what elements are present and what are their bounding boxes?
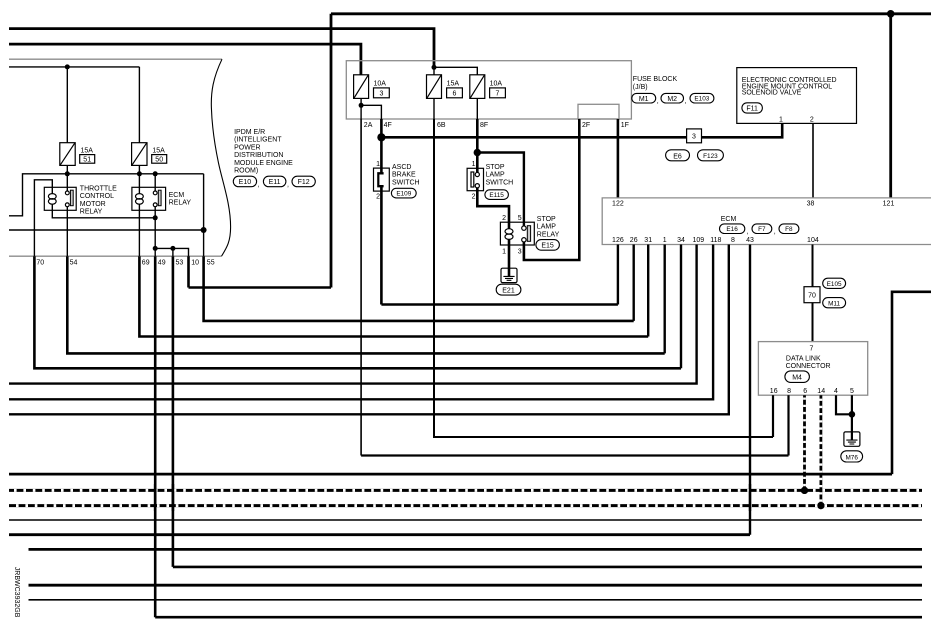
svg-text:2A: 2A	[364, 122, 373, 129]
wire: 4F drop to junction	[380, 119, 383, 137]
wire: DLC pin 14 shielded drop to bus 3	[820, 395, 823, 505]
wire: ECM relay coil bottom to pin 69	[138, 204, 140, 256]
svg-text:E11: E11	[269, 179, 281, 186]
connector oval F12	[292, 176, 315, 187]
wire: ECM pin 34 drop	[680, 245, 682, 369]
wire: 8F drop to junction	[476, 119, 479, 153]
svg-text:F8: F8	[785, 226, 793, 233]
svg-text:(J/B): (J/B)	[633, 84, 648, 91]
svg-text:121: 121	[883, 201, 895, 208]
connector oval F7	[752, 224, 776, 236]
wire: IPDM pin 55 to ECM pin 26	[204, 256, 634, 321]
label: ECM bottom pin numbers	[612, 237, 819, 244]
connector oval E6	[666, 150, 690, 161]
svg-text:5: 5	[518, 215, 522, 222]
connector oval M4	[785, 371, 810, 383]
svg-text:5: 5	[850, 388, 854, 395]
node: junction above fuses 6 and 7	[432, 65, 437, 70]
svg-text:49: 49	[158, 260, 166, 267]
FUSE BLOCK (J/B) box outline	[346, 61, 631, 119]
wire: bottom bus 6	[29, 548, 923, 551]
label: DATA LINK CONNECTOR	[786, 355, 831, 370]
wire: IPDM pin 54 to ECM pin 1	[67, 256, 664, 353]
wire: branch 8F to stop lamp relay pin 5	[477, 153, 524, 226]
wire: feed line y=44.1 to fuse 3	[9, 44, 361, 75]
svg-text:15A: 15A	[152, 147, 165, 154]
ground: E21 body ground	[501, 268, 517, 282]
svg-text:MOTOR: MOTOR	[80, 201, 106, 208]
wire: ECM relay contact bottom down pin 49 riser	[154, 207, 156, 257]
svg-text:10A: 10A	[490, 80, 503, 87]
connector oval M1	[632, 93, 659, 105]
connector oval F8	[779, 224, 799, 234]
svg-text:7: 7	[810, 346, 814, 353]
wire: drop to ECM pin 121	[889, 14, 892, 198]
svg-text:ECM: ECM	[721, 216, 737, 223]
IPDM E/R box outline (cut left, top and bottom edges)	[9, 59, 222, 256]
node: fuse 51 output junction	[65, 171, 70, 176]
wire: stop lamp switch pin 2 to relay pin 2	[477, 188, 509, 222]
relay: STOP LAMP RELAY	[500, 222, 534, 245]
svg-text:ASCD: ASCD	[392, 164, 411, 171]
svg-text:E10: E10	[239, 179, 252, 186]
svg-text:RELAY: RELAY	[537, 232, 560, 239]
svg-text:F12: F12	[298, 179, 310, 186]
svg-text:,: ,	[657, 98, 659, 105]
wire: DLC pin 5 to ground M76	[851, 395, 853, 432]
node: junction on DLC pin 5 wire	[849, 411, 856, 418]
svg-text:M4: M4	[792, 375, 802, 382]
wire: fuse 3 output to junction	[360, 98, 362, 105]
svg-text:55: 55	[207, 260, 215, 267]
svg-text:E21: E21	[502, 288, 515, 295]
wire: solenoid valve pin 2 to ECM pin 38	[812, 123, 814, 197]
svg-text:26: 26	[630, 237, 638, 244]
svg-text:43: 43	[746, 237, 754, 244]
wire: battery feed top line to ECM 121	[331, 12, 931, 15]
svg-text:FUSE BLOCK: FUSE BLOCK	[633, 76, 678, 83]
node: junction pin49/pin53 link	[153, 246, 158, 251]
connector oval E105	[823, 278, 846, 288]
node: junction to ECM relay coil	[137, 171, 142, 176]
svg-text:2: 2	[472, 194, 476, 201]
svg-text:STOP: STOP	[537, 216, 556, 223]
svg-text:118: 118	[710, 237, 721, 244]
relay: ECM RELAY	[132, 187, 166, 210]
svg-text:109: 109	[692, 237, 704, 244]
svg-text:8F: 8F	[480, 122, 488, 129]
svg-text:RELAY: RELAY	[169, 200, 192, 207]
wire: IPDM pin 49 down to bottom bus 10	[154, 256, 157, 617]
label: STOP LAMP RELAY pins 2/5/1/3	[502, 215, 522, 255]
wire: ECM pin 43 down to bottom bus 5	[749, 245, 751, 535]
connector oval F11	[742, 103, 763, 113]
connector oval E103	[690, 93, 714, 103]
svg-text:,: ,	[685, 98, 687, 105]
wire: 2A to DATA LINK CONNECTOR pin 8	[360, 119, 362, 456]
wire: ECM pin 104 to connector 70	[812, 245, 814, 287]
wire: ECM pin 109 to page edge	[9, 245, 697, 384]
connector oval E21	[496, 284, 521, 295]
svg-text:SWITCH: SWITCH	[392, 180, 420, 187]
wire: 8F down to stop lamp switch pin 1	[476, 153, 479, 169]
connector oval E11	[263, 176, 289, 188]
wire: bottom bus 5 (to ECM pin 43)	[9, 533, 750, 536]
wire: bottom bus 4	[9, 519, 922, 521]
wire: throttle relay contact top feed	[66, 174, 68, 191]
wire: bottom bus 7 (from IPDM pin 53)	[173, 566, 922, 569]
connector oval M11	[823, 298, 846, 308]
svg-text:1: 1	[376, 161, 380, 168]
wire: bottom bus 3 (shielded dashed)	[9, 504, 922, 507]
fuse 3 (10A)	[354, 75, 390, 99]
wire: DLC pin 4 to pin 5 ground link	[836, 395, 852, 414]
svg-text:2F: 2F	[582, 122, 590, 129]
svg-text:104: 104	[807, 237, 819, 244]
label: STOP LAMP SWITCH pins 1/2	[472, 161, 476, 200]
node: junction DLC 6 on bus 2	[801, 487, 808, 494]
svg-text:6B: 6B	[437, 122, 446, 129]
node: 8F junction	[474, 149, 481, 156]
svg-text:31: 31	[644, 237, 652, 244]
fuse 51 (15A)	[60, 143, 95, 166]
svg-text:,: ,	[747, 228, 749, 235]
connector oval M76	[841, 451, 863, 462]
svg-text:4: 4	[834, 388, 838, 395]
connector oval E16	[720, 224, 749, 236]
wire: fuse 6 output to 6B	[433, 98, 435, 119]
svg-text:15A: 15A	[447, 80, 460, 87]
svg-text:E115: E115	[489, 192, 504, 199]
svg-text:E103: E103	[694, 96, 709, 103]
svg-text:8: 8	[731, 237, 735, 244]
label: STOP LAMP SWITCH	[486, 164, 514, 187]
fuse 6 (15A)	[427, 75, 463, 99]
node: junction on top line above ECM pin 121	[887, 10, 895, 18]
svg-text:10A: 10A	[374, 80, 387, 87]
wire: IPDM pin 69 to ECM pin 31	[139, 256, 648, 336]
node: junction DLC 6 on bus 2 (redrawn above dashes)	[801, 487, 808, 494]
svg-text:ECM: ECM	[169, 192, 185, 199]
connector oval E10	[233, 176, 259, 188]
switch: STOP LAMP SWITCH	[467, 168, 483, 190]
wire: right edge feed to bottom bus 1	[892, 292, 931, 474]
IPDM E/R wavy cut edge	[211, 59, 230, 256]
label: STOP LAMP RELAY	[537, 216, 560, 239]
svg-text:16: 16	[770, 388, 778, 395]
svg-text:2: 2	[376, 194, 380, 201]
wire: link y=248.4 to pin 10 drop	[155, 248, 188, 256]
wire: ECM pin 26 drop	[633, 245, 635, 321]
wire: feed line y=28.6 to fuse block fuses 6/7	[9, 29, 434, 68]
wire: ECM pin 118 to page edge	[9, 245, 713, 400]
wire: ECM pin 1 drop	[664, 245, 666, 354]
wire: bottom bus 2 (shielded dashed)	[9, 489, 922, 492]
svg-text:7: 7	[496, 91, 500, 98]
wire: drop to fuse 50 top	[138, 67, 140, 143]
node: junction on pin 53 drop	[170, 246, 175, 251]
fuse 7 (10A)	[470, 75, 506, 99]
svg-text:4F: 4F	[384, 122, 392, 129]
node: junction on pin 49 riser	[153, 215, 158, 220]
wire: IPDM pin 10 up riser start	[187, 256, 190, 287]
svg-text:JRBWC3932GB: JRBWC3932GB	[13, 567, 20, 618]
svg-text:1: 1	[663, 237, 667, 244]
wire: branch to 4F inside fuse block	[361, 105, 381, 119]
FUSE BLOCK pin labels 2A 4F 6B 8F 2F 1F	[364, 122, 629, 129]
wire: IPDM pin 49 riser over dashed buses	[154, 484, 157, 511]
svg-text:LAMP: LAMP	[537, 224, 556, 231]
svg-text:10: 10	[191, 260, 199, 267]
label: ASCD BRAKE SWITCH pins 1/2	[376, 161, 380, 200]
svg-text:38: 38	[807, 201, 815, 208]
wire: 2A drop inside fuse block	[360, 105, 362, 119]
svg-text:,: ,	[258, 182, 260, 189]
svg-text:RELAY: RELAY	[80, 209, 103, 216]
svg-text:DATA LINK: DATA LINK	[786, 355, 821, 362]
wire: branch from junction to fuse 7 top	[434, 67, 477, 75]
svg-text:126: 126	[612, 237, 624, 244]
svg-text:2: 2	[810, 116, 814, 123]
DATA LINK CONNECTOR box	[758, 342, 867, 396]
wire: IPDM net y=173.8 with left tail to page edge	[9, 174, 204, 216]
wire: bottom bus 1	[9, 473, 892, 476]
wire: ECM relay coil top	[138, 174, 140, 194]
node: junction DLC 14 on bus 3 (redrawn above dashes)	[817, 502, 824, 509]
node: fuse 3 output junction (2A/4F)	[359, 103, 364, 108]
svg-text:M2: M2	[667, 96, 677, 103]
svg-text:IPDM E/R: IPDM E/R	[234, 129, 265, 136]
svg-text:E105: E105	[827, 281, 842, 288]
wire: fuse 51 output to node	[66, 165, 68, 173]
svg-text:1: 1	[472, 161, 476, 168]
wire: ECM pin 126 drop	[617, 245, 619, 305]
connector oval F123	[698, 150, 724, 161]
wire: DLC pin 8 drop to 2A line	[787, 395, 789, 455]
wire: stop lamp relay pin 3 to fuse block 2F	[524, 119, 579, 260]
ground: M76 body ground	[844, 432, 860, 446]
svg-text:F7: F7	[758, 226, 766, 233]
FUSE BLOCK bottom connector sub-box (2F/1F)	[578, 104, 619, 119]
label: solenoid valve text	[742, 77, 837, 96]
svg-text:,: ,	[287, 182, 289, 189]
wire: bottom bus 8	[29, 584, 923, 587]
connector 70 (E105/M11 pass-through)	[804, 287, 820, 303]
svg-text:50: 50	[155, 157, 163, 164]
wire: IPDM pin 70 to ECM pin 34	[34, 256, 681, 368]
svg-text:8: 8	[787, 388, 791, 395]
wire: throttle relay coil top to pin 70 riser	[34, 180, 52, 256]
connector oval E115	[485, 190, 509, 200]
wire: ECM pin 8 to page edge	[9, 245, 729, 415]
svg-text:M76: M76	[845, 454, 858, 461]
wire: stub from junction into fuse 6 top	[433, 67, 435, 75]
solenoid: ELECTRONIC CONTROLLED ENGINE MOUNT CONTROL SOLENOID VALVE box	[737, 68, 857, 124]
wire: ECM pin 43 riser over dashed buses	[749, 484, 751, 511]
svg-text:ROOM): ROOM)	[234, 168, 258, 175]
svg-text:M11: M11	[828, 300, 840, 307]
node: junction above fuse 51	[65, 64, 70, 69]
node: junction to ECM relay contact	[153, 171, 158, 176]
wire: ECM relay contact top	[154, 174, 156, 191]
svg-text:SWITCH: SWITCH	[486, 180, 514, 187]
svg-text:E15: E15	[541, 243, 554, 250]
wire: net y=230 from page edge to pin 55 riser	[9, 229, 204, 231]
IPDM pin number labels 70 54 69 49 53 10 55	[36, 260, 214, 267]
wire: ECM pin 31 drop	[647, 245, 649, 337]
wire: IPDM pin 53 down to bottom bus 7	[172, 256, 175, 567]
svg-text:STOP: STOP	[486, 164, 505, 171]
svg-text:70: 70	[808, 292, 816, 299]
svg-text:LAMP: LAMP	[486, 172, 505, 179]
wire: horizontal 2A to DLC pin 8	[361, 454, 788, 456]
svg-text:1: 1	[502, 249, 506, 256]
svg-text:14: 14	[817, 388, 825, 395]
wire: throttle relay coil bottom to ECM relay contact branch	[52, 210, 155, 218]
connector 3 (E6/F123 pass-through)	[687, 129, 702, 143]
wire: DLC pin 16 drop to 6B line	[772, 395, 774, 437]
wire: IPDM internal feed y=66.9 to fuses 51/50	[9, 66, 139, 68]
svg-text:CONNECTOR: CONNECTOR	[786, 363, 831, 370]
relay: THROTTLE CONTROL MOTOR RELAY	[44, 187, 76, 210]
svg-text:1F: 1F	[621, 122, 629, 129]
wire: horizontal to ECM pin 126	[381, 303, 618, 305]
wire: stop lamp relay pin 1 to ground E21	[508, 245, 511, 268]
svg-text:,: ,	[774, 228, 776, 235]
wire: 4F to engine mount solenoid valve pin 1 via connector 3	[381, 123, 782, 137]
label: FUSE BLOCK (J/B)	[633, 76, 678, 91]
svg-text:POWER: POWER	[234, 144, 260, 151]
svg-text:1: 1	[779, 116, 783, 123]
svg-text:122: 122	[612, 201, 624, 208]
svg-text:6: 6	[453, 91, 457, 98]
svg-text:3: 3	[518, 249, 522, 256]
label: IPDM E/R description	[234, 129, 293, 175]
svg-text:3: 3	[379, 91, 383, 98]
svg-text:F11: F11	[746, 106, 758, 113]
wire: 6B to DLC pin 16	[434, 119, 773, 437]
wire: ASCD switch pin 2 to ECM pin 126	[380, 191, 383, 304]
connector oval M2	[661, 93, 687, 105]
svg-text:70: 70	[36, 260, 44, 267]
wire: 1F to ECM pin 122	[617, 119, 620, 198]
svg-text:SOLENOID VALVE: SOLENOID VALVE	[742, 90, 802, 97]
svg-text:3: 3	[692, 133, 696, 140]
connector oval E109	[391, 188, 416, 198]
label: ECM top pin numbers 122 38 121	[612, 201, 894, 208]
wire: pin 55 riser from y=173.8 net	[203, 174, 205, 256]
svg-text:15A: 15A	[81, 147, 94, 154]
svg-text:2: 2	[502, 215, 506, 222]
wire: 4F down to ASCD brake switch pin 1	[380, 137, 383, 168]
wire: bottom bus 10 (from IPDM pin 49)	[155, 616, 922, 619]
ECM box outline (open right edge)	[602, 198, 931, 245]
svg-text:E6: E6	[673, 153, 682, 160]
node: junction on pin 55 riser	[201, 227, 207, 233]
label: DLC bottom pin numbers 16 8 6 14 4 5	[770, 388, 854, 395]
wire: fuse 7 output to 8F	[476, 98, 478, 119]
svg-text:THROTTLE: THROTTLE	[80, 185, 117, 192]
wire: IPDM pin 10 jog up to top line	[189, 286, 332, 289]
svg-text:CONTROL: CONTROL	[80, 193, 114, 200]
node: junction DLC 14 on bus 3	[817, 502, 824, 509]
fuse 50 (15A)	[132, 143, 167, 166]
label: THROTTLE CONTROL MOTOR RELAY	[80, 185, 117, 215]
wire: vertical riser x=331 from IPDM pin 10 net	[330, 14, 333, 288]
wire: fuse 50 output to node	[138, 165, 140, 173]
svg-text:E109: E109	[396, 191, 411, 198]
svg-text:6: 6	[803, 388, 807, 395]
svg-text:DISTRIBUTION: DISTRIBUTION	[234, 152, 283, 159]
label: ECM RELAY	[169, 192, 192, 207]
label: ASCD BRAKE SWITCH	[392, 164, 420, 187]
wire: IPDM pin 53 riser over dashed buses	[172, 484, 175, 511]
wire: DLC pin 6 shielded drop to bus 2	[803, 395, 806, 490]
svg-text:MODULE ENGINE: MODULE ENGINE	[234, 160, 293, 167]
switch: ASCD BRAKE SWITCH	[374, 168, 390, 191]
connector oval E15	[536, 240, 560, 251]
wire: drop to fuse 51 top	[66, 67, 68, 143]
svg-text:F123: F123	[703, 153, 718, 160]
label: solenoid valve pins 1/2	[779, 116, 814, 123]
svg-text:BRAKE: BRAKE	[392, 172, 416, 179]
svg-text:54: 54	[70, 260, 78, 267]
wire: connector 70 to DLC pin 7	[812, 303, 814, 342]
wire: throttle relay contact bottom to pin 54	[66, 207, 68, 257]
wire: pin 53 drop inside IPDM	[172, 248, 174, 256]
svg-text:E16: E16	[726, 226, 738, 233]
svg-text:34: 34	[677, 237, 685, 244]
svg-text:53: 53	[176, 260, 184, 267]
svg-text:51: 51	[83, 157, 91, 164]
node: 4F main junction	[377, 133, 385, 141]
wire: bottom bus 9	[29, 599, 923, 601]
svg-text:M1: M1	[639, 96, 649, 103]
svg-text:69: 69	[142, 260, 150, 267]
svg-text:(INTELLIGENT: (INTELLIGENT	[234, 137, 282, 144]
